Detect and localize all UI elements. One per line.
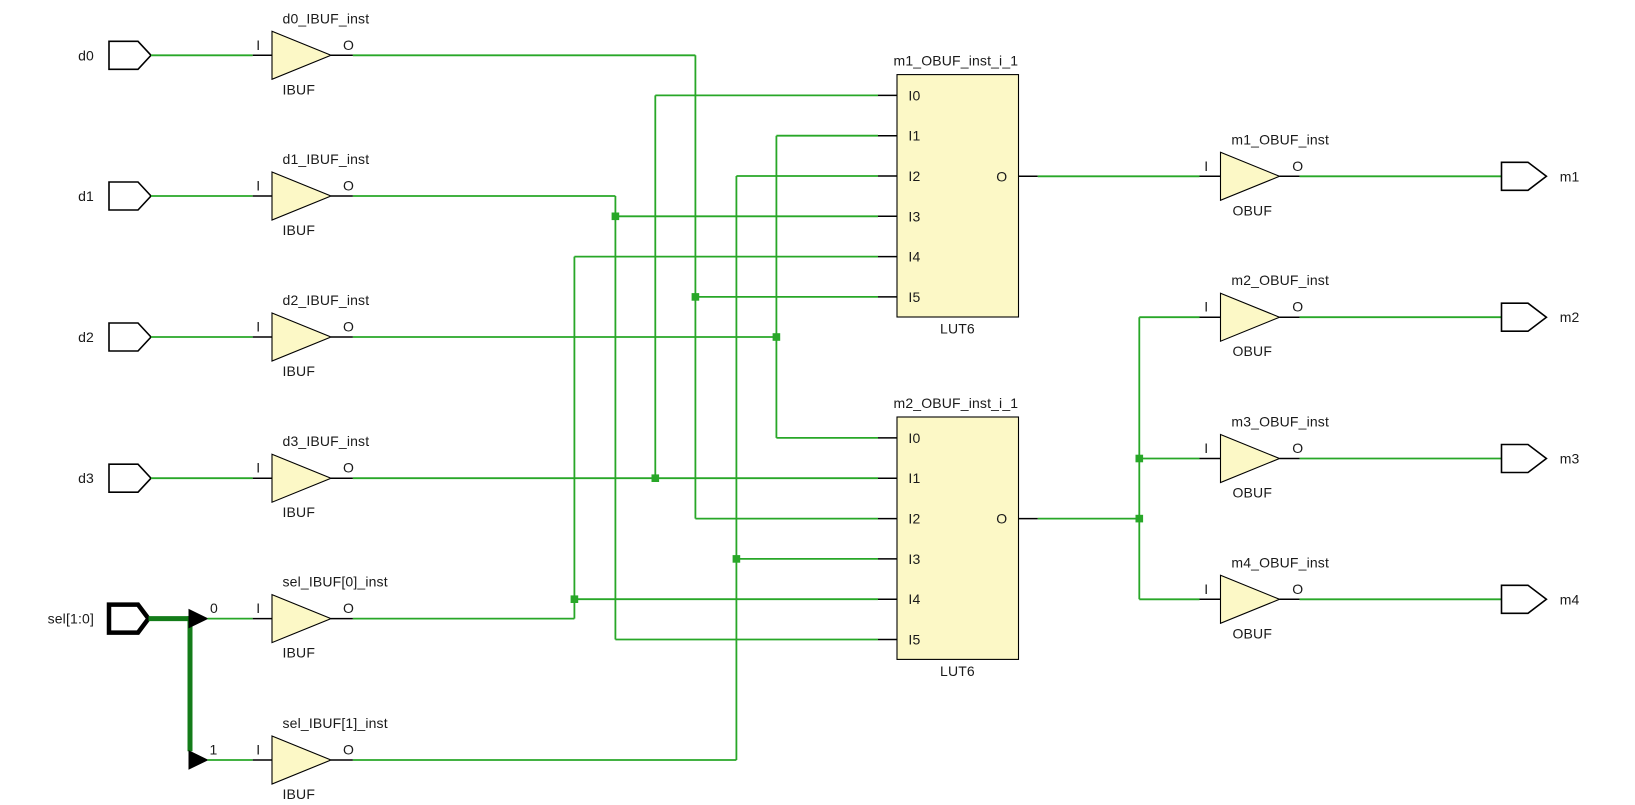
- svg-text:OBUF: OBUF: [1233, 343, 1273, 359]
- output port m4: [1502, 585, 1547, 613]
- svg-text:m4_OBUF_inst: m4_OBUF_inst: [1231, 554, 1329, 570]
- LUT6 m1_OBUF_inst_i_1: [878, 75, 1038, 317]
- wire fanout to m3 OBUF: [1139, 458, 1199, 460]
- svg-text:d0: d0: [78, 47, 94, 63]
- bus tap sel[0]: [189, 610, 208, 628]
- output port m1: [1502, 162, 1547, 190]
- svg-text:IBUF: IBUF: [283, 645, 316, 661]
- wire sel[1] tap to IBUF: [208, 759, 253, 761]
- junction d0 net at LUT1 I5 branch: [692, 293, 700, 301]
- wire d1 net to LUT2 I5: [615, 639, 878, 641]
- wire fanout vertical trunk: [1138, 317, 1140, 599]
- wire sel1 net to LUT2 I3: [736, 558, 878, 560]
- svg-text:I5: I5: [908, 632, 920, 648]
- svg-text:I: I: [1204, 299, 1208, 315]
- svg-text:IBUF: IBUF: [283, 222, 316, 238]
- svg-text:IBUF: IBUF: [283, 786, 316, 802]
- IBUF sel_IBUF[1]_inst: [253, 736, 353, 784]
- svg-text:m2_OBUF_inst_i_1: m2_OBUF_inst_i_1: [894, 395, 1019, 411]
- bus tap sel[1]: [189, 751, 208, 769]
- svg-text:d3: d3: [78, 470, 94, 486]
- wire d0 net vertical trunk: [694, 55, 696, 518]
- svg-text:I0: I0: [908, 87, 920, 103]
- wire LUT2 O to fanout trunk: [1038, 518, 1140, 520]
- wire fanout to m2 OBUF: [1139, 316, 1199, 318]
- junction d1 net at LUT1 I3 branch: [612, 213, 620, 221]
- svg-text:0: 0: [210, 600, 218, 616]
- wire LUT1 O to m1 OBUF: [1038, 175, 1200, 177]
- svg-text:I2: I2: [908, 511, 920, 527]
- svg-text:O: O: [1292, 299, 1303, 315]
- svg-text:O: O: [996, 168, 1007, 184]
- bus wire sel[1:0] horizontal: [149, 616, 191, 621]
- wire sel0 net to LUT1 I4: [574, 256, 878, 258]
- svg-text:O: O: [1292, 158, 1303, 174]
- wire d3 net horizontal from IBUF O to LUT2 I1: [353, 477, 878, 479]
- svg-text:I: I: [256, 37, 260, 53]
- input port d0: [109, 41, 151, 69]
- wire m2 OBUF O to port: [1300, 316, 1502, 318]
- wire d0 port to IBUF: [151, 54, 253, 56]
- wire sel[0] tap to IBUF: [208, 618, 253, 620]
- svg-text:1: 1: [210, 742, 218, 758]
- svg-text:m1: m1: [1560, 168, 1580, 184]
- svg-text:OBUF: OBUF: [1233, 485, 1273, 501]
- svg-text:I1: I1: [908, 128, 920, 144]
- junction sel0 net at LUT2 I4 branch: [571, 595, 579, 603]
- svg-text:m1_OBUF_inst_i_1: m1_OBUF_inst_i_1: [894, 53, 1019, 69]
- svg-text:I3: I3: [908, 208, 920, 224]
- svg-text:IBUF: IBUF: [283, 81, 316, 97]
- svg-text:I: I: [256, 319, 260, 335]
- svg-text:d1: d1: [78, 188, 94, 204]
- svg-text:I1: I1: [908, 470, 920, 486]
- wire d3 net vertical trunk: [654, 95, 656, 478]
- svg-text:O: O: [1292, 581, 1303, 597]
- IBUF d2_IBUF_inst: [253, 313, 353, 361]
- input port d3: [109, 464, 151, 492]
- wire d1 net horizontal from IBUF O: [353, 195, 616, 197]
- junction d2 net at trunk: [773, 333, 781, 341]
- svg-text:d2_IBUF_inst: d2_IBUF_inst: [283, 292, 370, 308]
- svg-text:OBUF: OBUF: [1233, 202, 1273, 218]
- wire d0 net to LUT1 I5: [695, 296, 878, 298]
- wire sel0 net to LUT2 I4: [574, 598, 878, 600]
- OBUF m1_OBUF_inst: [1200, 152, 1300, 200]
- svg-text:I4: I4: [908, 591, 920, 607]
- svg-text:O: O: [343, 600, 354, 616]
- svg-text:I: I: [1204, 581, 1208, 597]
- bus wire sel[1:0] vertical: [188, 616, 193, 751]
- svg-text:I3: I3: [908, 551, 920, 567]
- svg-text:IBUF: IBUF: [283, 504, 316, 520]
- svg-text:m2_OBUF_inst: m2_OBUF_inst: [1231, 272, 1329, 288]
- svg-text:I2: I2: [908, 168, 920, 184]
- svg-text:d0_IBUF_inst: d0_IBUF_inst: [283, 10, 370, 26]
- wire d2 port to IBUF: [151, 336, 253, 338]
- OBUF m4_OBUF_inst: [1200, 575, 1300, 623]
- output port m2: [1502, 303, 1547, 331]
- wire sel0 net vertical trunk: [573, 257, 575, 619]
- wire d2 net to LUT1 I1: [776, 135, 878, 137]
- wire d3 net to LUT1 I0: [655, 94, 878, 96]
- wire sel1 net horizontal from IBUF O: [353, 759, 737, 761]
- svg-text:I: I: [1204, 440, 1208, 456]
- svg-text:d3_IBUF_inst: d3_IBUF_inst: [283, 433, 370, 449]
- svg-text:I: I: [256, 178, 260, 194]
- wire d1 net to LUT1 I3: [615, 215, 878, 217]
- wire d2 net vertical trunk: [775, 136, 777, 438]
- IBUF d3_IBUF_inst: [253, 454, 353, 502]
- svg-text:m4: m4: [1560, 591, 1580, 607]
- junction fanout trunk at LUT2 O: [1136, 515, 1144, 523]
- junction sel1 net at LUT2 I3 branch: [733, 555, 741, 563]
- svg-text:m3_OBUF_inst: m3_OBUF_inst: [1231, 414, 1329, 430]
- wire d0 net horizontal from IBUF O: [353, 54, 696, 56]
- input port d1: [109, 182, 151, 210]
- input port d2: [109, 323, 151, 351]
- IBUF sel_IBUF[0]_inst: [253, 595, 353, 643]
- svg-text:d2: d2: [78, 329, 94, 345]
- svg-text:I4: I4: [908, 249, 920, 265]
- wire d0 net to LUT2 I2: [695, 518, 878, 520]
- svg-text:m3: m3: [1560, 451, 1580, 467]
- wire m3 OBUF O to port: [1300, 458, 1502, 460]
- svg-text:m2: m2: [1560, 309, 1580, 325]
- svg-text:O: O: [1292, 440, 1303, 456]
- IBUF d1_IBUF_inst: [253, 172, 353, 220]
- svg-text:I5: I5: [908, 289, 920, 305]
- svg-text:sel_IBUF[1]_inst: sel_IBUF[1]_inst: [283, 715, 388, 731]
- svg-text:I: I: [256, 600, 260, 616]
- wire d1 net vertical trunk: [614, 196, 616, 640]
- svg-text:I: I: [256, 460, 260, 476]
- svg-text:d1_IBUF_inst: d1_IBUF_inst: [283, 151, 370, 167]
- wire d3 port to IBUF: [151, 477, 253, 479]
- svg-text:sel_IBUF[0]_inst: sel_IBUF[0]_inst: [283, 574, 388, 590]
- svg-text:O: O: [343, 319, 354, 335]
- svg-text:I: I: [1204, 158, 1208, 174]
- output port m3: [1502, 445, 1547, 473]
- svg-text:m1_OBUF_inst: m1_OBUF_inst: [1231, 131, 1329, 147]
- svg-text:I0: I0: [908, 430, 920, 446]
- svg-text:sel[1:0]: sel[1:0]: [48, 611, 94, 627]
- svg-text:I: I: [256, 742, 260, 758]
- wire m1 OBUF O to port: [1300, 175, 1502, 177]
- wire sel1 net vertical trunk: [735, 176, 737, 760]
- svg-text:O: O: [343, 178, 354, 194]
- LUT6 m2_OBUF_inst_i_1: [878, 417, 1038, 659]
- wire d1 port to IBUF: [151, 195, 253, 197]
- svg-text:O: O: [343, 37, 354, 53]
- junction fanout trunk at m3 branch: [1136, 455, 1144, 463]
- wire fanout to m4 OBUF: [1139, 598, 1199, 600]
- svg-text:IBUF: IBUF: [283, 363, 316, 379]
- IBUF d0_IBUF_inst: [253, 31, 353, 79]
- wire d2 net horizontal from IBUF O: [353, 336, 777, 338]
- svg-text:O: O: [996, 511, 1007, 527]
- svg-text:OBUF: OBUF: [1233, 625, 1273, 641]
- junction d3 net at trunk: [652, 474, 660, 482]
- OBUF m3_OBUF_inst: [1200, 435, 1300, 483]
- svg-text:O: O: [343, 460, 354, 476]
- input bus port sel[1:0]: [109, 605, 149, 633]
- svg-text:LUT6: LUT6: [940, 321, 975, 337]
- wire sel1 net to LUT1 I2: [736, 175, 878, 177]
- wire m4 OBUF O to port: [1300, 598, 1502, 600]
- svg-text:O: O: [343, 742, 354, 758]
- OBUF m2_OBUF_inst: [1200, 293, 1300, 341]
- svg-text:LUT6: LUT6: [940, 663, 975, 679]
- wire sel0 net horizontal from IBUF O: [353, 618, 575, 620]
- wire d2 net to LUT2 I0: [776, 437, 878, 439]
